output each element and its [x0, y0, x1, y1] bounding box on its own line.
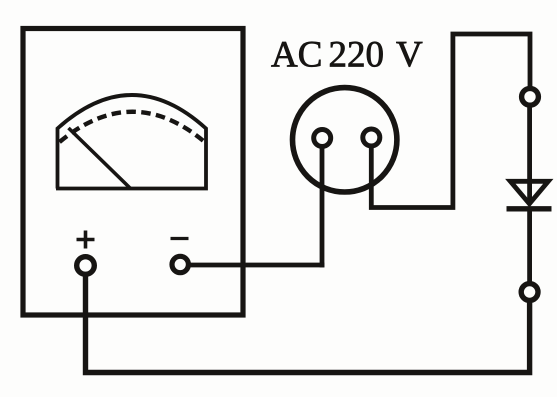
wire: lower terminal down, along bottom, to plus terminal — [86, 273, 530, 373]
AC source socket circle — [293, 88, 397, 192]
wire: minus terminal to junction under left pin — [189, 263, 325, 268]
svg-text:AC220V: AC220V — [271, 35, 423, 76]
wire: diode cathode to lower terminal — [527, 209, 532, 282]
meter dashed scale arc — [60, 112, 204, 142]
minus label on meter — [171, 237, 189, 240]
socket left pin — [314, 130, 331, 147]
minus terminal of meter — [172, 256, 188, 272]
wire: right pin down, right, up, over to top-right corner — [371, 34, 530, 208]
meter scale window outline — [56, 95, 206, 189]
plus terminal of meter — [77, 257, 95, 275]
socket right pin — [363, 129, 380, 146]
diode D (triangle pointing down) — [510, 181, 548, 204]
wire: left pin down to minus-wire junction — [320, 145, 325, 267]
upper terminal on diode branch — [522, 88, 539, 105]
voltmeter body (meter case rectangle) — [23, 29, 243, 316]
lower terminal on diode branch — [521, 284, 538, 301]
plus label on meter — [77, 231, 95, 249]
wire: upper terminal to diode anode — [527, 107, 532, 202]
diode cathode bar — [507, 206, 552, 211]
meter needle — [69, 128, 131, 189]
